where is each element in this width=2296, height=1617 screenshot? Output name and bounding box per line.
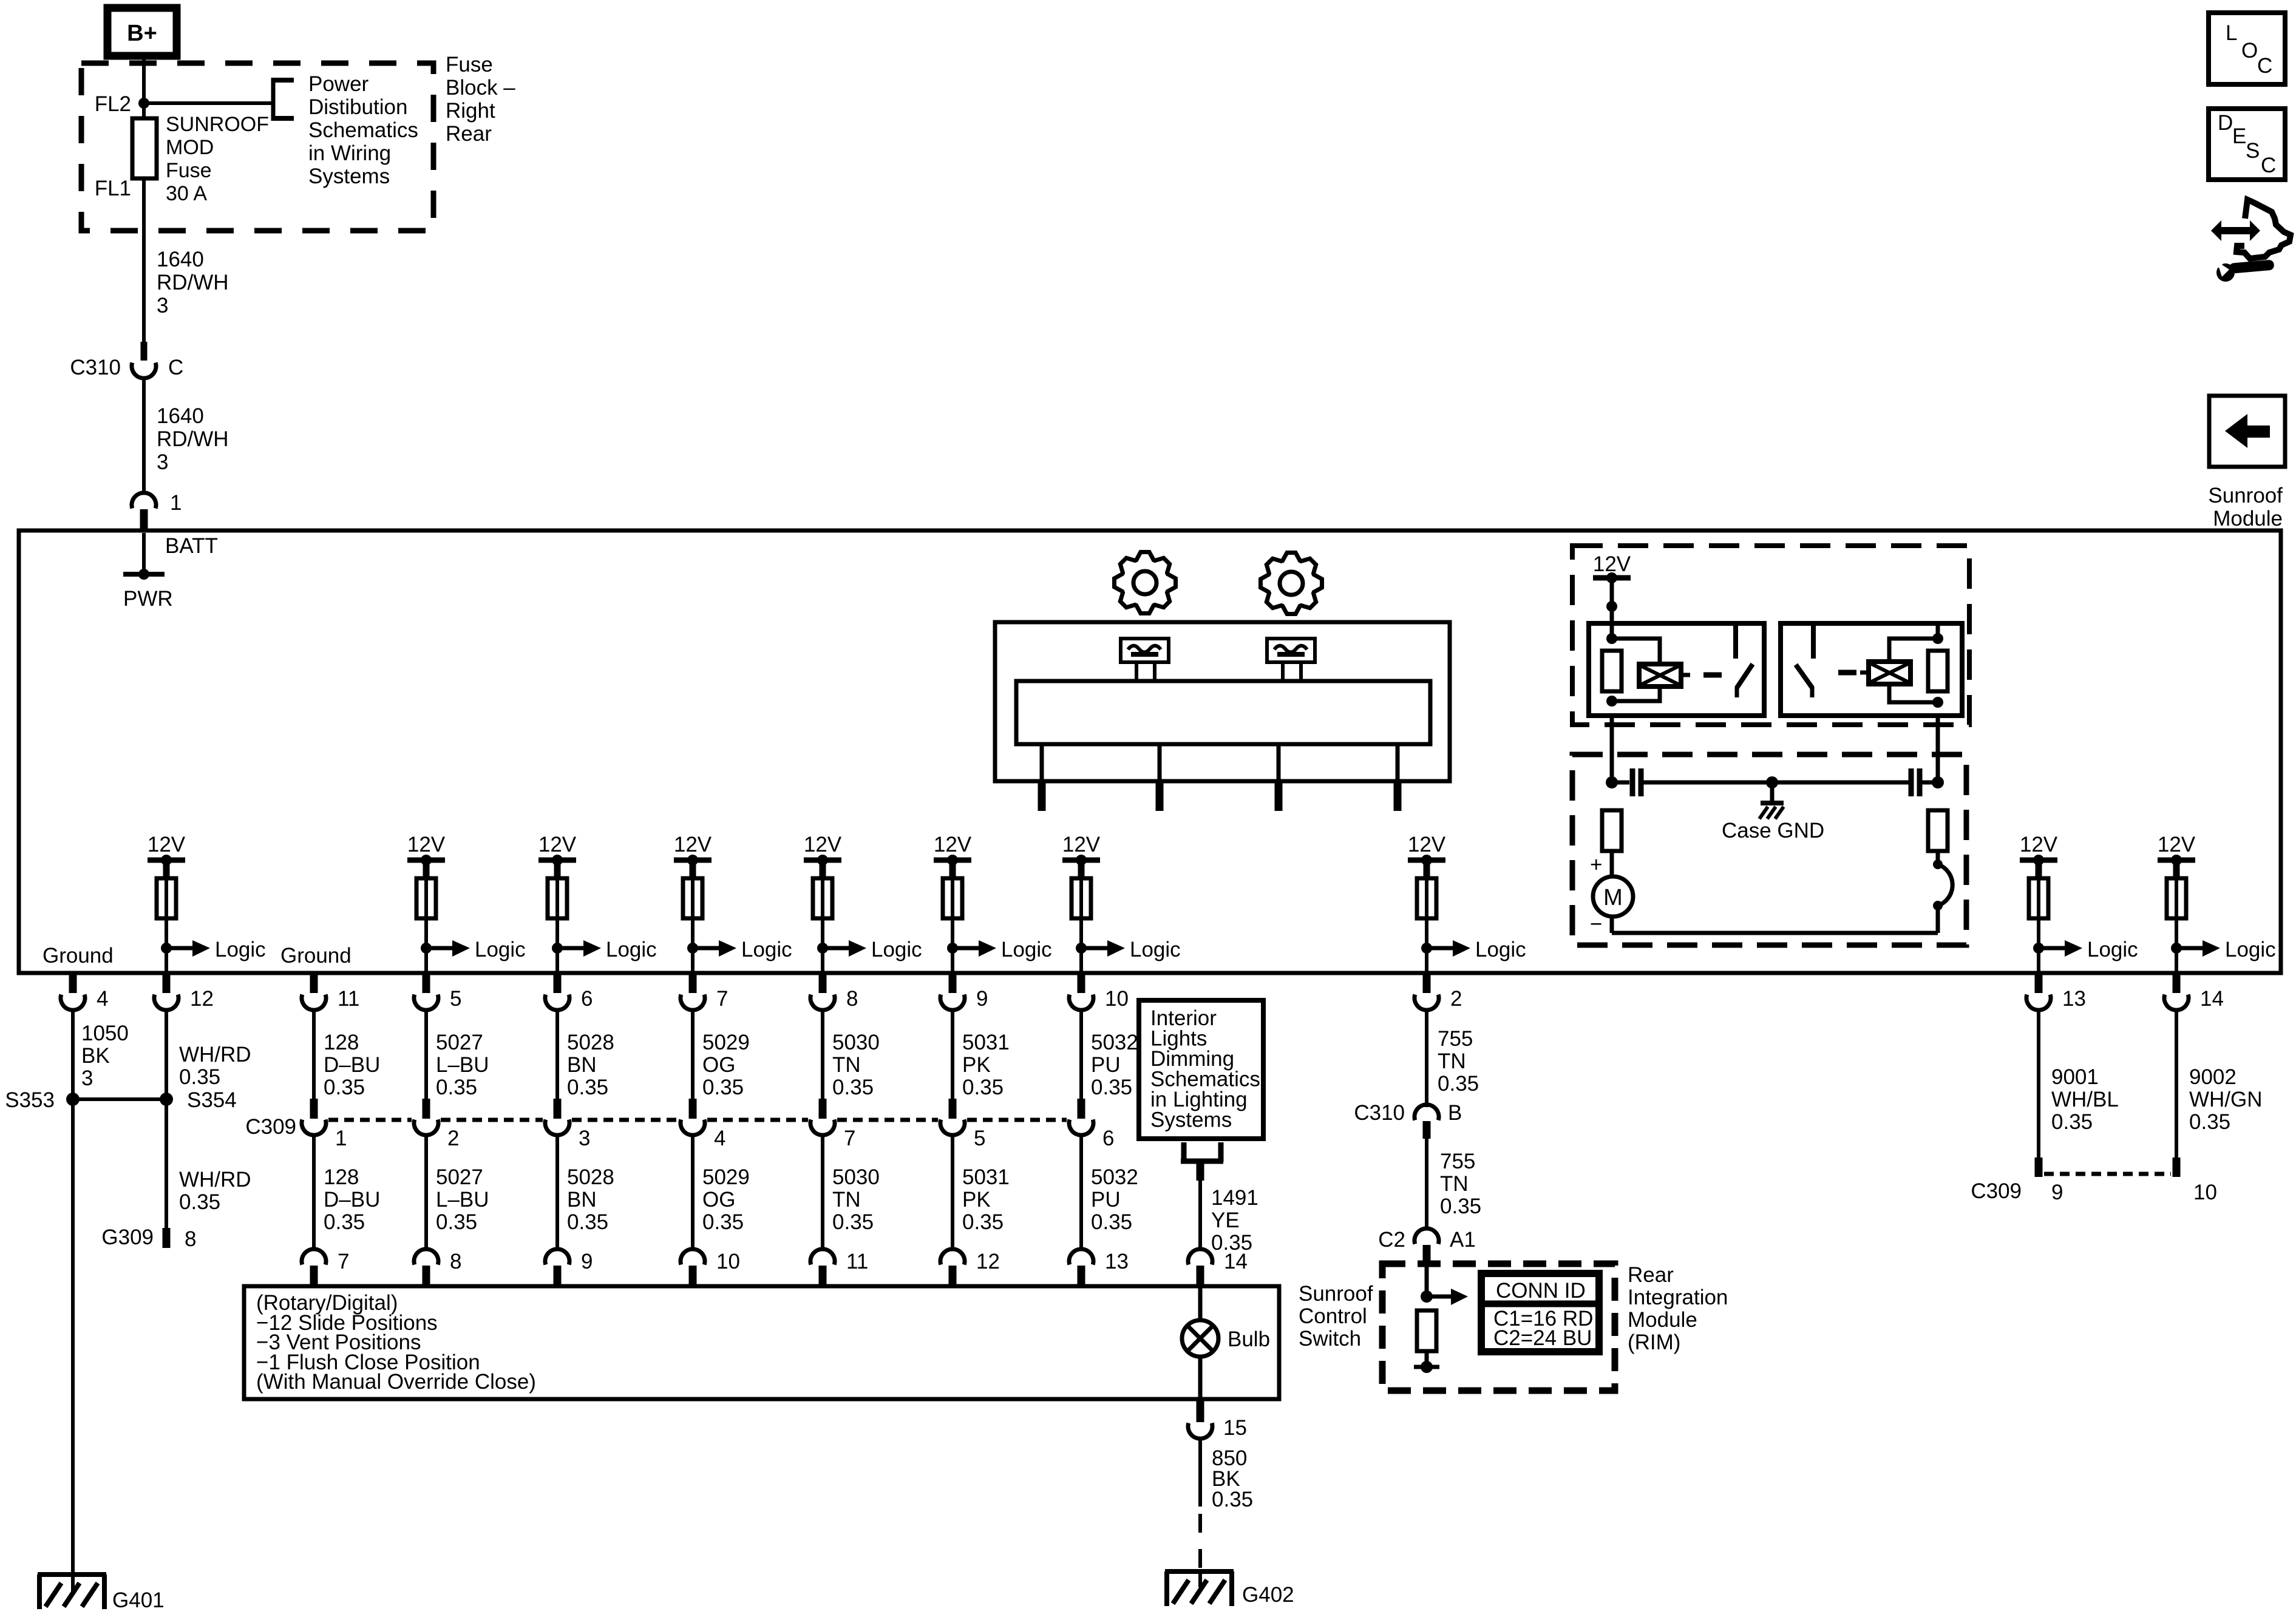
12V supply pin 7 column [674,833,712,878]
label wire 5031 PK 0.35 (upper) [962,1031,1010,1099]
svg-text:MOD: MOD [166,136,214,159]
mechanism pin 2 [1156,744,1164,811]
svg-text:C310: C310 [70,356,121,379]
label wire 5028 BN 0.35 (lower) [567,1165,614,1234]
sunroof control switch box [244,1286,1279,1399]
bulb lamp [1182,1320,1218,1357]
svg-text:3: 3 [157,294,168,317]
svg-text:Ground: Ground [280,944,352,968]
logic arrow pin 6 [552,938,657,961]
logic arrow pin 8 [817,938,922,961]
svg-text:8: 8 [185,1227,196,1251]
svg-text:0.35: 0.35 [2189,1110,2230,1134]
svg-text:5027: 5027 [436,1031,483,1054]
wire pin 4 to S353 [71,1010,75,1099]
svg-text:Fuse: Fuse [166,159,212,182]
node K1 top [1606,633,1617,644]
sensor 1 stem [1136,662,1155,681]
svg-text:Power: Power [308,72,369,96]
svg-text:9: 9 [976,987,988,1011]
node capacitor left junction [1606,776,1618,788]
label SUNROOF MOD Fuse 30 A [166,113,269,205]
svg-text:+: + [1590,853,1602,876]
wire motor bottom loop [1612,906,1938,933]
svg-text:0.35: 0.35 [436,1210,477,1234]
connector C309 pin 4 [681,1099,725,1150]
svg-text:RD/WH: RD/WH [157,271,229,294]
svg-text:S354: S354 [187,1088,237,1112]
svg-text:8: 8 [846,987,858,1011]
svg-text:6: 6 [581,987,593,1011]
label FL1 [95,177,131,200]
fuse block dashed box (Fuse Block - Right Rear) [81,63,433,231]
logic arrow pin 5 [421,938,526,961]
resistor K1 [1602,651,1622,691]
label wire 5027 L–BU 0.35 (lower) [436,1165,489,1234]
relay section dashed box [1572,546,1969,725]
label Ground (pin 11) [280,944,352,968]
svg-text:0.35: 0.35 [1091,1076,1132,1099]
svg-text:Systems: Systems [308,164,390,188]
label Bulb [1228,1327,1270,1351]
label C1=16 RD [1493,1307,1593,1331]
svg-text:128: 128 [324,1165,359,1189]
wire C309 to switch (col 11) [312,1133,316,1250]
connector pin 2 [1415,973,1462,1011]
label C309 pin 10 [2193,1181,2217,1204]
logic arrow pin 13 [2033,938,2138,961]
svg-text:PWR: PWR [123,587,173,611]
resistor pin 8 column [813,878,832,918]
svg-text:5029: 5029 [702,1031,750,1054]
wire S353-S354 [73,1097,166,1101]
label FL2 [95,92,131,116]
resistor K2 [1928,651,1948,691]
svg-text:CONN ID: CONN ID [1496,1279,1586,1303]
12V supply pin 8 column [804,833,842,878]
connector pin 12 [154,973,214,1011]
svg-text:0.35: 0.35 [832,1210,874,1234]
wire RIM resistor to ground [1425,1351,1429,1366]
svg-text:SUNROOF: SUNROOF [166,113,269,136]
svg-text:Rear: Rear [446,122,492,146]
label wire 755 TN 0.35 (lower) [1440,1150,1481,1218]
svg-text:5030: 5030 [832,1165,880,1189]
svg-text:13: 13 [1105,1250,1129,1273]
wire pin 7 to C309 [691,1010,695,1100]
svg-text:BK: BK [81,1044,110,1068]
ground terminal G309 [163,1228,171,1248]
svg-text:Rear: Rear [1628,1263,1674,1287]
label wire 850 BK 0.35 [1212,1446,1253,1511]
resistor pin 5 column [416,878,436,918]
wire resistor to arc switch [1936,851,1940,864]
label G309 pin 8 [185,1227,196,1251]
svg-text:0.35: 0.35 [1212,1488,1253,1511]
label wire 5030 TN 0.35 (upper) [832,1031,880,1099]
node PWR internal supply [123,569,165,580]
connector pin 9 [940,973,988,1011]
svg-text:Logic: Logic [606,938,657,961]
wire pin 15 down [1198,1439,1202,1507]
svg-text:0.35: 0.35 [324,1076,365,1099]
12V supply pin 12 column [148,833,186,878]
svg-text:BN: BN [567,1053,597,1077]
label wire 9001 WH/BL 0.35 [2051,1065,2119,1134]
svg-text:3: 3 [81,1066,93,1090]
capacitor C-right [1911,768,1938,796]
label motor plus [1590,853,1602,876]
connector switch pin 7 [302,1249,349,1286]
resistor pin 13 column [2029,878,2048,918]
wire K1 to capacitor row [1610,716,1614,782]
svg-text:Systems: Systems [1150,1108,1232,1132]
label Sunroof Control Switch [1299,1282,1373,1351]
svg-text:C: C [2261,154,2276,177]
connector pin 1 sunroof module [132,491,182,531]
svg-text:5031: 5031 [962,1165,1010,1189]
label wire 1640 RD/WH 3 (lower) [157,404,229,474]
label BATT [165,534,218,558]
label G402 [1242,1583,1294,1607]
svg-text:Logic: Logic [215,938,266,961]
svg-text:8: 8 [450,1250,461,1273]
connector switch pin 9 [545,1249,593,1286]
wire C309 to switch (col 10) [1079,1133,1083,1250]
icon adjust/service (double arrow, outline, wrench) [2211,200,2291,282]
svg-text:0.35: 0.35 [702,1076,744,1099]
relay K2 switch [1796,623,1813,697]
wire pin 9 to C309 [951,1010,954,1100]
svg-text:10: 10 [1105,987,1129,1011]
svg-text:11: 11 [846,1250,868,1273]
svg-text:O: O [2241,39,2258,63]
CONN ID table box [1481,1273,1599,1352]
connector C309 pin 2 [414,1099,459,1150]
svg-text:C2: C2 [1378,1228,1405,1252]
svg-text:6: 6 [1102,1127,1114,1150]
svg-text:5: 5 [974,1127,985,1150]
resistor pin 12 column [157,878,176,918]
node K1 bottom [1606,696,1617,707]
svg-text:12: 12 [190,987,214,1011]
svg-text:7: 7 [338,1250,349,1273]
case ground symbol [1759,782,1784,819]
logic arrow pin 12 [161,938,266,961]
logic arrow pin 7 [687,938,792,961]
ground G401 [38,1575,106,1609]
RIM internal ground [1414,1361,1439,1373]
position sensor icon 1 [1121,639,1169,662]
relay K1 switch [1736,623,1753,697]
wire pin 2 to C310 [1425,1010,1428,1107]
svg-text:Case GND: Case GND [1722,819,1824,842]
svg-text:Fuse: Fuse [446,53,493,76]
wire B+ down to fuse [142,53,146,118]
label Power Distribution Schematics in Wiring Systems [308,72,418,188]
svg-text:Schematics: Schematics [308,118,418,142]
svg-text:L–BU: L–BU [436,1188,489,1212]
logic arrow pin 10 [1076,938,1181,961]
svg-text:14: 14 [1224,1250,1248,1273]
svg-text:Module: Module [2213,507,2283,531]
svg-text:1: 1 [170,491,182,515]
label wire 128 D–BU 0.35 (lower) [324,1165,380,1234]
svg-text:Bulb: Bulb [1228,1327,1270,1351]
label wire WH/RD 0.35 (lower) [179,1168,251,1214]
relay K2 actuation dashed link [1838,670,1856,676]
svg-text:0.35: 0.35 [179,1190,220,1214]
capacitor C-left [1612,768,1657,796]
wire S354 to G309 [165,1099,168,1228]
svg-text:Block –: Block – [446,76,515,100]
wire A1 into RIM [1425,1265,1429,1297]
connector C309 pin 1 [302,1099,347,1150]
label wire 5028 BN 0.35 (upper) [567,1031,614,1099]
connector C309 pin 6 [1069,1099,1114,1150]
node relay feed junction [1606,601,1617,612]
fuse FL1 SUNROOF MOD Fuse 30 A [132,118,157,178]
svg-text:0.35: 0.35 [436,1076,477,1099]
svg-text:11: 11 [338,987,359,1011]
connector C310 terminal C [70,342,183,379]
svg-text:1640: 1640 [157,404,204,428]
relay K1 coil loop [1612,639,1660,701]
svg-text:G401: G401 [112,1588,165,1612]
svg-text:FL2: FL2 [95,92,131,116]
resistor RIM [1417,1310,1436,1351]
svg-text:OG: OG [702,1053,735,1077]
label C309 (right) [1971,1179,2022,1203]
connector pin 15 [1188,1401,1247,1440]
svg-text:9002: 9002 [2189,1065,2237,1089]
label wire 5032 PU 0.35 (lower) [1091,1165,1138,1234]
logic arrow pin 9 [947,938,1052,961]
svg-text:B+: B+ [127,21,157,46]
wire pin 14 to bulb [1198,1286,1203,1320]
node capacitor right junction [1932,776,1944,788]
label C309 [245,1115,296,1139]
svg-text:(RIM): (RIM) [1628,1331,1680,1354]
label wire 1491 YE 0.35 [1211,1186,1258,1255]
svg-text:A1: A1 [1450,1228,1476,1252]
wire C309 to switch (col 7) [691,1133,695,1250]
svg-text:9001: 9001 [2051,1065,2099,1089]
12V internal supply (relay feed) [1593,552,1631,583]
dashed wire to G402 [1198,1514,1202,1570]
svg-text:12V: 12V [538,833,577,856]
wire pin 6 to C309 [555,1010,559,1100]
svg-text:10: 10 [716,1250,740,1273]
wire resistor to module edge (pin 14) [2175,878,2178,973]
svg-text:TN: TN [1440,1172,1469,1196]
wire resistor to module edge (pin 5) [424,878,428,973]
svg-text:5029: 5029 [702,1165,750,1189]
connector C310 terminal B [1354,1101,1462,1139]
svg-text:9: 9 [2051,1181,2063,1204]
connector pin 6 [545,973,593,1011]
svg-text:E: E [2232,124,2246,148]
label wire 1050 BK 3 [81,1022,129,1090]
svg-text:Logic: Logic [871,938,922,961]
resistor pin 10 column [1072,878,1091,918]
svg-text:12V: 12V [934,833,972,856]
svg-text:0.35: 0.35 [832,1076,874,1099]
svg-text:12V: 12V [148,833,186,856]
svg-text:0.35: 0.35 [324,1210,365,1234]
resistor pin 7 column [683,878,702,918]
terminal stub C309 pin 9 [2035,1158,2043,1177]
label C2=24 BU [1493,1326,1592,1350]
svg-text:C309: C309 [245,1115,296,1139]
svg-text:0.35: 0.35 [702,1210,744,1234]
sunroof slide bar [1016,681,1430,744]
connector pin 4 [61,973,108,1011]
svg-text:PU: PU [1091,1188,1121,1212]
mechanism pin 3 [1275,744,1283,811]
label Fuse Block - Right Rear [446,53,515,146]
ground G402 [1165,1570,1234,1606]
svg-text:B: B [1448,1101,1462,1125]
connector pin 11 [302,973,359,1011]
svg-text:PK: PK [962,1188,991,1212]
wire bulb to pin 15 [1198,1357,1203,1399]
12V supply pin 14 column [2158,833,2196,878]
12V supply pin 6 column [538,833,577,878]
svg-text:1050: 1050 [81,1022,129,1045]
svg-text:0.35: 0.35 [962,1076,1004,1099]
svg-text:WH/GN: WH/GN [2189,1088,2263,1111]
connector switch pin 12 [940,1249,1000,1286]
svg-text:0.35: 0.35 [1091,1210,1132,1234]
svg-text:PU: PU [1091,1053,1121,1077]
wire C309 to switch (col 6) [555,1133,559,1250]
position switch arc [1933,859,1952,910]
wire pin 13 down [2037,1010,2040,1158]
C309 dashed line (pins 9-10) [2044,1172,2171,1176]
svg-text:Logic: Logic [475,938,526,961]
wire C309 to switch (col 5) [424,1133,428,1250]
12V supply pin 2 column [1408,833,1446,878]
svg-text:1640: 1640 [157,248,204,271]
svg-text:12V: 12V [2020,833,2058,856]
node RIM junction [1421,1290,1433,1303]
svg-text:G402: G402 [1242,1583,1294,1607]
label Rear Integration Module (RIM) [1628,1263,1728,1354]
svg-text:M: M [1603,885,1623,910]
svg-text:128: 128 [324,1031,359,1054]
svg-text:1491: 1491 [1211,1186,1258,1210]
12V supply pin 5 column [407,833,446,878]
svg-text:RD/WH: RD/WH [157,427,229,451]
svg-text:in Wiring: in Wiring [308,141,391,165]
svg-text:12V: 12V [1062,833,1101,856]
wire C310 B to C2 A1 [1425,1139,1428,1230]
svg-text:0.35: 0.35 [962,1210,1004,1234]
svg-text:Switch: Switch [1299,1327,1361,1351]
svg-text:WH/BL: WH/BL [2051,1088,2119,1111]
svg-text:0.35: 0.35 [179,1065,220,1089]
svg-text:Logic: Logic [2225,938,2276,961]
svg-text:30 A: 30 A [166,182,207,205]
mechanism pin 1 [1038,744,1046,811]
resistor pin 6 column [548,878,567,918]
12V supply pin 10 column [1062,833,1101,878]
svg-text:BN: BN [567,1188,597,1212]
svg-text:Logic: Logic [1130,938,1181,961]
label wire 128 D–BU 0.35 (upper) [324,1031,380,1099]
wire resistor to module edge (pin 10) [1079,878,1083,973]
resistor pin 9 column [943,878,962,918]
svg-text:5032: 5032 [1091,1165,1138,1189]
label Ground (pin 4) [42,944,114,968]
svg-text:0.35: 0.35 [567,1076,608,1099]
wire resistor to module edge (pin 6) [555,878,559,973]
sunroof mechanism outer frame [995,622,1450,781]
12V supply pin 9 column [934,833,972,878]
position sensor icon 2 [1267,639,1315,662]
connector C309 pin 3 [545,1099,590,1150]
svg-text:TN: TN [832,1053,861,1077]
svg-text:5032: 5032 [1091,1031,1138,1054]
label C309 pin 9 [2051,1181,2063,1204]
connector pin 14 [2164,973,2224,1011]
label wire 5031 PK 0.35 (lower) [962,1165,1010,1234]
label wire 5029 OG 0.35 (lower) [702,1165,750,1234]
splice S353 [5,1088,80,1112]
icon box DESC [2209,109,2285,180]
connector pin 13 [2026,973,2086,1011]
wire resistor to motor [1610,851,1614,876]
wire K2 to capacitor row [1936,716,1940,782]
label Interior Lights Dimming Schematics in Lighting Systems [1150,1006,1260,1132]
svg-text:TN: TN [832,1188,861,1212]
wire pin 14 down [2175,1010,2178,1158]
svg-text:Ground: Ground [42,944,114,968]
relay K1 box [1589,623,1764,716]
resistor motor left [1602,810,1622,851]
resistor pin 14 column [2167,878,2186,918]
svg-text:D–BU: D–BU [324,1188,380,1212]
wire pin 10 to C309 [1079,1010,1083,1100]
icon box LOC [2209,13,2285,84]
svg-text:Logic: Logic [1475,938,1526,961]
svg-text:Integration: Integration [1628,1286,1728,1309]
svg-text:5030: 5030 [832,1031,880,1054]
mechanism pin 4 [1394,744,1402,811]
12V supply pin 13 column [2020,833,2058,878]
wire resistor to module edge (pin 13) [2037,878,2040,973]
relay K1 actuation dashed link [1703,673,1722,678]
svg-text:TN: TN [1438,1049,1466,1073]
relay K2 box [1781,623,1962,716]
relay K1 coil [1639,664,1690,686]
label motor minus [1590,912,1602,936]
interior lights dimming box [1139,1000,1263,1139]
terminal stub C309 pin 10 [2173,1158,2181,1177]
gear icon 1 (sunroof drive) [1115,552,1176,614]
label Case GND [1722,819,1824,842]
svg-text:14: 14 [2200,987,2224,1011]
svg-text:C: C [168,356,183,379]
svg-text:5: 5 [450,987,461,1011]
svg-text:WH/RD: WH/RD [179,1043,251,1066]
logic arrow pin 14 [2171,938,2276,961]
label wire 5032 PU 0.35 (upper) [1091,1031,1138,1099]
svg-text:YE: YE [1211,1209,1240,1232]
wire BATT to PWR node [142,533,146,574]
svg-text:D: D [2218,111,2233,135]
